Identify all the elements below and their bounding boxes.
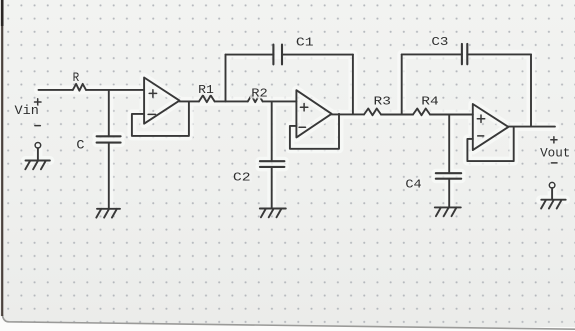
wire Vin to resistor R	[39, 89, 73, 91]
svg-text:C: C	[76, 139, 84, 153]
svg-text:C1: C1	[296, 36, 314, 50]
feedback wire op-amp U2 output to - input	[290, 114, 339, 149]
wire to capacitor C3 left plate	[402, 53, 462, 55]
feedback wire op-amp U3 output to - input	[467, 127, 513, 161]
wire capacitor C3 right plate over op-amp U3	[467, 53, 531, 55]
wire op-amp U3 output to Vout	[508, 126, 555, 128]
op-amp U3 - input mark	[478, 135, 484, 137]
op-amp U1 - input mark	[148, 113, 155, 115]
op-amp U3 + input mark	[477, 115, 484, 122]
wire node to capacitor C	[108, 90, 110, 136]
resistor R2	[248, 95, 263, 102]
svg-text:Vout: Vout	[540, 146, 570, 161]
op-amp U2 + input mark	[300, 104, 307, 111]
wire terminal to ground at Vout	[551, 188, 553, 200]
svg-text:R3: R3	[374, 95, 391, 109]
capacitor C3	[462, 44, 467, 64]
svg-text:C3: C3	[431, 35, 448, 49]
terminal circle at Vout	[549, 182, 555, 188]
wire capacitor C2 to ground	[271, 167, 273, 209]
wire resistor R3 to resistor R4	[381, 114, 413, 116]
capacitor C2	[260, 161, 285, 167]
svg-text:R1: R1	[198, 83, 214, 97]
op-amp U3	[473, 104, 509, 150]
plus mark at Vin	[35, 99, 42, 105]
minus mark at Vin	[35, 125, 40, 127]
op-amp U2	[296, 90, 331, 137]
svg-text:C2: C2	[233, 171, 251, 185]
capacitor C	[97, 136, 121, 142]
wire resistor R to op-amp U1 + input	[86, 89, 144, 91]
resistor R3	[364, 109, 381, 116]
ground at Vin	[25, 161, 50, 170]
svg-text:R: R	[73, 71, 80, 85]
wire down from C3 to op-amp U3 output	[530, 54, 532, 126]
wire to capacitor C1 left plate	[226, 54, 274, 56]
plus mark at Vout	[551, 137, 557, 143]
op-amp U1	[144, 78, 179, 124]
wire capacitor C4 to ground	[448, 179, 450, 208]
svg-text:R2: R2	[251, 86, 267, 100]
capacitor C4	[436, 173, 461, 179]
wire op-amp U1 output to resistor R1	[179, 100, 199, 102]
wire resistor R4 to op-amp U3 + input	[430, 114, 473, 116]
resistor R4	[413, 109, 430, 116]
wire op-amp U2 output to resistor R3	[332, 113, 364, 115]
resistor R	[73, 84, 86, 91]
resistor R1	[199, 95, 215, 102]
decorative halo under circuit lines (no label: background)	[26, 54, 566, 208]
capacitor C1	[273, 45, 282, 65]
page left edge (decorative)	[1, 0, 3, 316]
wire junction R1-R2 up to capacitor C1	[225, 55, 227, 102]
ground at Vout	[541, 200, 566, 209]
svg-text:R4: R4	[421, 95, 438, 109]
wire down from C1 to op-amp U2 output	[352, 55, 354, 114]
wire junction R3-R4 up to capacitor C3	[401, 54, 403, 114]
wire capacitor C to ground	[108, 143, 110, 209]
ground below capacitor C2	[260, 209, 286, 218]
ground below capacitor C4	[435, 207, 461, 216]
wire terminal to ground at Vin	[37, 148, 39, 160]
wire resistor R2 to op-amp U2 + input	[263, 100, 297, 102]
ground below capacitor C	[96, 209, 120, 218]
terminal circle at Vin	[35, 143, 41, 149]
feedback wire op-amp U1 output to - input	[132, 101, 189, 135]
svg-text:C4: C4	[405, 178, 421, 192]
wire capacitor C1 right plate to op-amp U2 output	[282, 54, 353, 56]
op-amp U2 - input mark	[299, 126, 305, 128]
minus mark at Vout	[551, 162, 557, 164]
wire junction to capacitor C2	[271, 101, 273, 161]
wire junction to capacitor C4	[448, 115, 450, 174]
svg-text:Vin: Vin	[15, 103, 39, 118]
op-amp U1 + input mark	[149, 90, 156, 97]
page bottom edge (decorative)	[0, 316, 575, 331]
wire resistor R1 to resistor R2	[215, 100, 248, 102]
